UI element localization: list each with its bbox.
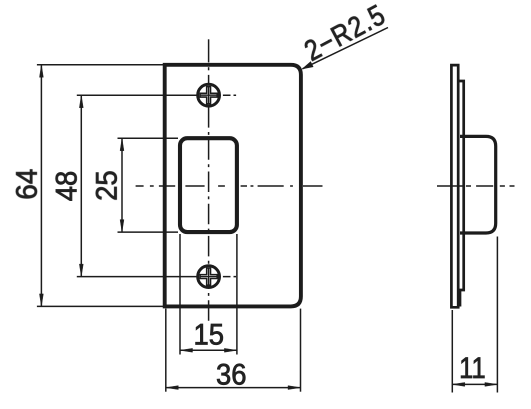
36 ext line right: [300, 309, 302, 392]
svg-text:36: 36: [216, 358, 247, 391]
side dust box: [460, 136, 496, 233]
64 arrow down: [39, 294, 43, 307]
svg-text:2−R2.5: 2−R2.5: [299, 0, 391, 67]
side lip line: [459, 81, 464, 307]
top screw hole dash right: [223, 94, 237, 96]
36 ext line left: [165, 309, 167, 392]
bottom screw hole centerline (48 ext line): [77, 276, 197, 278]
15 ext line right: [236, 234, 238, 355]
vertical centerline: [208, 39, 210, 323]
bottom screw hole: [198, 266, 220, 288]
horizontal centerline: [136, 185, 323, 187]
15 arrow left: [180, 348, 193, 352]
25 dim line: [121, 138, 123, 232]
top screw hole: [198, 84, 220, 106]
svg-text:11: 11: [459, 352, 486, 385]
side centerline: [437, 185, 515, 187]
64 arrow up: [39, 65, 43, 78]
svg-text:64: 64: [11, 169, 44, 200]
svg-text:15: 15: [194, 319, 225, 352]
11 dim line: [452, 383, 497, 385]
25 ext line bottom: [118, 231, 179, 233]
leader arrow: [300, 61, 314, 72]
48 arrow up: [79, 95, 83, 108]
64 ext line bottom: [37, 305, 163, 307]
15 arrow right: [224, 348, 237, 352]
64 dim line: [40, 65, 42, 307]
48 arrow down: [79, 264, 83, 277]
15 dim line: [180, 349, 237, 351]
top screw hole centerline (48 ext line): [77, 94, 197, 96]
36 arrow right: [288, 386, 301, 390]
svg-text:48: 48: [50, 171, 83, 202]
11 arrow right: [485, 382, 498, 386]
bottom screw hole dash right: [223, 276, 237, 278]
plate outline: [165, 65, 301, 307]
25 ext line top: [118, 137, 179, 139]
36 arrow left: [166, 386, 179, 390]
25 arrow up: [120, 138, 124, 151]
11 ext line right: [496, 237, 498, 393]
64 ext line top: [37, 64, 163, 66]
25 arrow down: [120, 220, 124, 233]
latch cutout: [180, 138, 237, 232]
11 ext line left: [451, 310, 453, 393]
48 dim line: [80, 95, 82, 276]
side plate: [451, 65, 458, 307]
36 dim line: [166, 387, 301, 389]
svg-text:25: 25: [91, 170, 124, 201]
leader line: [303, 28, 389, 69]
15 ext line left: [179, 234, 181, 355]
11 arrow left: [452, 382, 465, 386]
